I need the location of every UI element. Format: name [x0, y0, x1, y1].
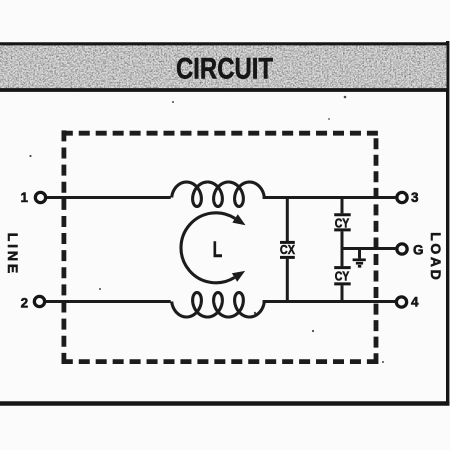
wire: CY2 to bottom line	[341, 285, 344, 301]
capacitor CY1 plates	[334, 215, 351, 230]
arrowhead bottom	[232, 271, 245, 282]
capacitor CX plates	[280, 242, 295, 257]
svg-text:L: L	[213, 239, 223, 263]
svg-text:1: 1	[20, 190, 28, 205]
capacitor CY2 plates	[334, 268, 351, 284]
coupling arrow arc	[181, 213, 235, 283]
wire: terminal 2 to choke	[46, 300, 171, 303]
wire: ground stub	[358, 249, 361, 259]
svg-text:CIRCUIT: CIRCUIT	[176, 53, 273, 86]
svg-text:G: G	[413, 242, 424, 257]
wire: CX branch upper	[286, 198, 289, 242]
arrowhead top	[232, 214, 245, 225]
ground symbol	[353, 260, 366, 267]
wire: choke to terminal 4	[263, 300, 396, 303]
terminal 1	[35, 192, 45, 202]
svg-text:CX: CX	[280, 242, 295, 257]
inductor L top winding	[172, 182, 265, 207]
svg-text:CY: CY	[335, 269, 350, 284]
terminal 2	[34, 296, 44, 306]
terminal G	[397, 244, 407, 254]
svg-text:LOAD: LOAD	[428, 232, 444, 280]
wire: mid node to CY2	[341, 248, 344, 266]
title bar	[0, 43, 447, 89]
terminal 3	[397, 192, 407, 202]
svg-text:4: 4	[411, 294, 419, 309]
wire: choke to terminal 3	[263, 196, 397, 199]
svg-text:CY: CY	[335, 215, 350, 230]
svg-text:LINE: LINE	[5, 233, 21, 274]
wire: CX branch lower	[286, 259, 289, 302]
wire: CY1 to mid node	[341, 231, 344, 249]
wire: CY branch top	[341, 198, 344, 214]
terminal 4	[396, 297, 406, 307]
svg-text:3: 3	[411, 190, 419, 205]
outer frame bottom border	[0, 401, 449, 405]
svg-text:2: 2	[21, 296, 29, 311]
wire: terminal 1 to choke	[47, 196, 171, 199]
outer frame right border	[446, 41, 449, 406]
shield enclosure (dashed box)	[62, 130, 378, 364]
wire: mid node to terminal G	[342, 247, 396, 250]
inductor L bottom winding	[172, 293, 265, 318]
